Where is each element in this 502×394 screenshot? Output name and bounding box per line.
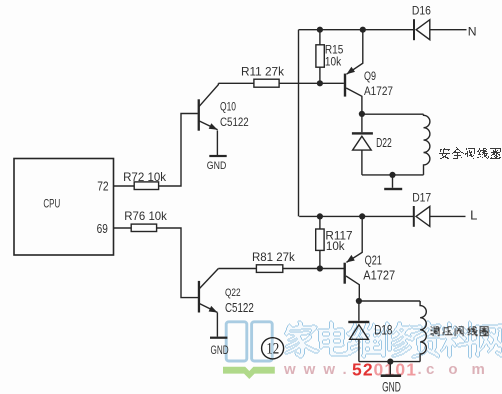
svg-text:A1727: A1727 — [364, 84, 393, 98]
svg-text:10k: 10k — [326, 239, 345, 253]
svg-text:52: 52 — [352, 360, 374, 380]
svg-text:69: 69 — [97, 222, 108, 236]
svg-text:R76 10k: R76 10k — [124, 209, 167, 223]
svg-text:C5122: C5122 — [220, 115, 249, 129]
svg-text:N: N — [468, 25, 477, 39]
svg-text:GND: GND — [382, 379, 401, 394]
svg-text:www.: www. — [283, 361, 355, 378]
svg-text:D16: D16 — [412, 4, 431, 18]
svg-text:com: com — [426, 361, 499, 378]
svg-text:Q21: Q21 — [365, 254, 382, 268]
svg-text:C5122: C5122 — [225, 300, 254, 315]
svg-text:GND: GND — [207, 160, 227, 172]
svg-text:Q22: Q22 — [225, 287, 241, 299]
svg-text:L: L — [470, 207, 477, 222]
svg-text:Q9: Q9 — [364, 70, 376, 83]
svg-text:D18: D18 — [374, 323, 392, 338]
svg-text:R72 10k: R72 10k — [123, 170, 167, 184]
svg-text:R11 27k: R11 27k — [241, 67, 284, 79]
svg-text:CPU: CPU — [43, 196, 60, 210]
svg-text:10k: 10k — [325, 54, 342, 68]
svg-text:GND: GND — [211, 344, 229, 357]
svg-text:72: 72 — [97, 178, 108, 193]
svg-text:12: 12 — [266, 341, 279, 358]
svg-text:A1727: A1727 — [363, 269, 395, 283]
svg-text:R81 27k: R81 27k — [252, 252, 295, 264]
svg-text:D22: D22 — [376, 136, 392, 150]
svg-text:Q10: Q10 — [220, 100, 236, 114]
svg-text:D17: D17 — [412, 191, 431, 205]
svg-text:.: . — [418, 361, 422, 378]
